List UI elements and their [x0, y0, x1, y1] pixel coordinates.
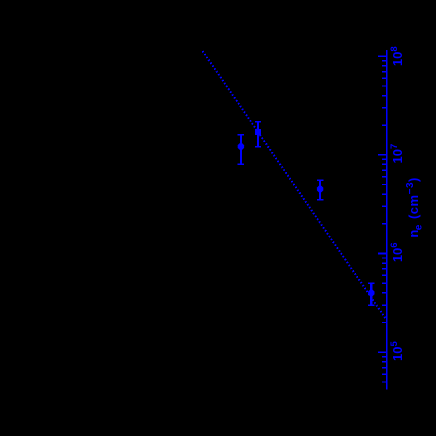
minor ticks decade 1e8-1e7	[382, 61, 387, 126]
data point 2 square marker	[255, 129, 261, 135]
fitted dotted line	[203, 51, 386, 319]
data point 4 circle marker	[368, 290, 374, 296]
minor ticks below 1e5	[382, 357, 387, 382]
major tick 1e5	[378, 351, 387, 353]
data point 3 circle marker	[317, 186, 323, 192]
data point 4 error bar	[368, 283, 374, 305]
data point 3 error bar	[317, 180, 323, 200]
major tick 1e6	[378, 253, 387, 255]
data point 2 error bar	[255, 122, 261, 147]
right y-axis line	[386, 50, 388, 390]
major tick 1e7	[378, 154, 387, 156]
minor ticks decade 1e6-1e5	[382, 258, 387, 323]
data point 1 error bar	[238, 135, 244, 165]
major tick 1e8	[378, 55, 387, 57]
data point 1 circle marker	[238, 143, 244, 149]
minor ticks decade 1e7-1e6	[382, 159, 387, 224]
